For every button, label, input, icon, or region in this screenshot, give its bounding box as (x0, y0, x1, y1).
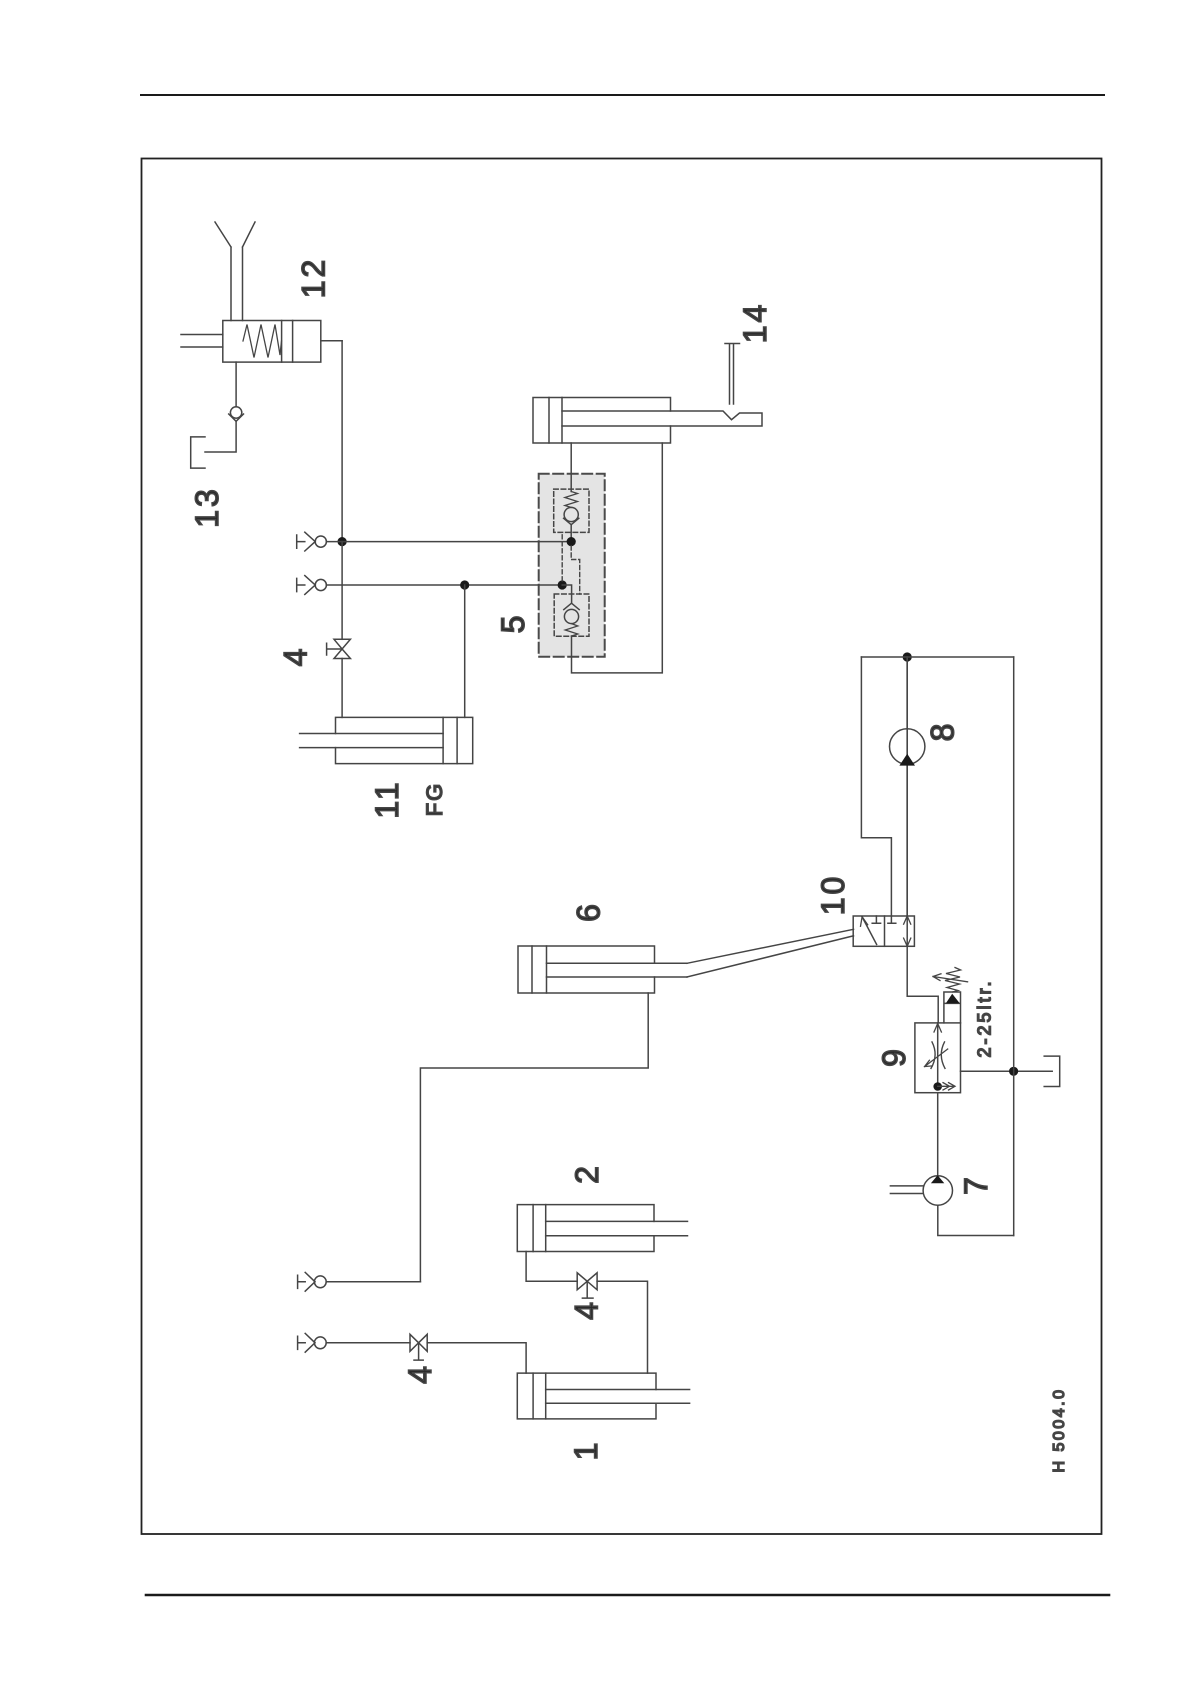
pilot check block 5 body (539, 474, 605, 657)
svg-text:4: 4 (402, 1366, 438, 1384)
arrow at node (938, 1083, 955, 1090)
quick coupler QC1 (297, 532, 327, 551)
wire valve4a to cylinder 11 (341, 659, 343, 718)
bottom rule (146, 1594, 1109, 1597)
quick coupler QC2 (297, 576, 327, 595)
svg-text:7: 7 (958, 1177, 994, 1195)
cylinder 2 (517, 1205, 687, 1252)
svg-text:12: 12 (296, 257, 332, 299)
node A2 block (558, 580, 567, 589)
svg-text:2: 2 (569, 1166, 605, 1184)
pilot line dashed A1 to lower check (571, 546, 580, 594)
svg-text:H 5004.0: H 5004.0 (1051, 1388, 1068, 1473)
node junction cyl11 (460, 580, 469, 589)
node top junction (903, 652, 912, 661)
check valve 5 lower (564, 603, 579, 623)
tank 13 (191, 437, 205, 468)
svg-text:4: 4 (569, 1302, 605, 1320)
relief valve with spring (933, 968, 968, 1023)
wire to tank 13 (205, 421, 236, 452)
svg-text:5: 5 (495, 616, 531, 634)
cylinder 1 (517, 1373, 689, 1419)
wire QC1b line (326, 1281, 420, 1283)
wire valve 4c to cylinder 1 rod port (597, 1281, 647, 1373)
svg-text:11: 11 (369, 779, 405, 818)
wire QC2b to valve 4b (326, 1342, 410, 1344)
shut-off valve 4a (327, 639, 351, 658)
wire cylinder top to block (570, 443, 572, 492)
wire cylinder 2 to valve 4c (526, 1252, 577, 1282)
pilot line dashed A2 to upper check (561, 532, 563, 580)
node tank junction (1009, 1067, 1018, 1076)
wire regulator right port (961, 1070, 1053, 1072)
wire QC1 junction down (341, 542, 343, 640)
svg-text:2-25ltr.: 2-25ltr. (975, 978, 995, 1057)
wire valve 10 to regulator 9 (907, 946, 938, 1023)
wire cylinder 6 to QC1b (420, 993, 648, 1282)
svg-text:14: 14 (737, 302, 773, 344)
hand pump 12 spring (243, 325, 282, 358)
wire main line from 12 (341, 341, 343, 542)
wire left branch to valve 10 (861, 657, 891, 916)
lever linkage 6 to 10 (687, 929, 854, 977)
svg-text:4: 4 (278, 649, 314, 667)
wire block bottom loop (572, 443, 663, 673)
shut-off valve 4b (410, 1334, 427, 1360)
hand pump 12 piston rod (181, 335, 223, 348)
svg-text:FG: FG (422, 782, 447, 817)
pointer 14 (725, 344, 740, 405)
valve 10 (853, 916, 914, 946)
wire pump12 outlet (321, 340, 342, 342)
wire line A1 (326, 541, 571, 543)
check valve 5 upper spring (565, 492, 578, 508)
wire valve 4b to cylinder 1 (427, 1343, 526, 1373)
motor 8 (890, 657, 925, 916)
svg-text:1: 1 (568, 1443, 604, 1461)
wire A2 to lower check (562, 585, 571, 603)
svg-text:13: 13 (189, 486, 225, 528)
cylinder 5 (top) (533, 398, 762, 444)
wire pump 7 bottom (938, 1205, 1014, 1235)
svg-text:6: 6 (571, 904, 607, 922)
node junction A1 (338, 537, 347, 546)
wire right return line (1013, 657, 1015, 1236)
wire regulator to pump 7 (937, 1093, 939, 1176)
top rule (141, 94, 1104, 96)
cylinder 11 (300, 717, 473, 763)
quick coupler QC1b (298, 1272, 327, 1291)
drawing frame (142, 159, 1102, 1535)
svg-text:10: 10 (815, 874, 851, 916)
check valve 5 upper (564, 507, 579, 524)
wire top manifold (861, 656, 1013, 658)
svg-text:9: 9 (876, 1049, 912, 1067)
flow regulator 9 (915, 1023, 961, 1093)
wire pump12 suction (235, 362, 237, 407)
pump 7 (890, 1175, 952, 1205)
wire line A2 (326, 584, 562, 586)
cylinder 6 (518, 946, 687, 993)
shut-off valve 4c (577, 1273, 597, 1298)
wire down to cylinder 11 (464, 585, 466, 717)
node regulator outlet (933, 1082, 942, 1091)
node A1 block (567, 537, 576, 546)
quick coupler QC2b (298, 1333, 327, 1352)
hand pump 12 body (223, 321, 321, 363)
tank right (1044, 1056, 1060, 1086)
wire pump 8 line (906, 657, 908, 916)
check valve near 13 (229, 407, 244, 422)
svg-text:8: 8 (925, 724, 961, 742)
wire upper check to node (570, 525, 572, 538)
check valve 5 lower spring (565, 624, 578, 636)
hand pump 12 lever (215, 222, 255, 321)
